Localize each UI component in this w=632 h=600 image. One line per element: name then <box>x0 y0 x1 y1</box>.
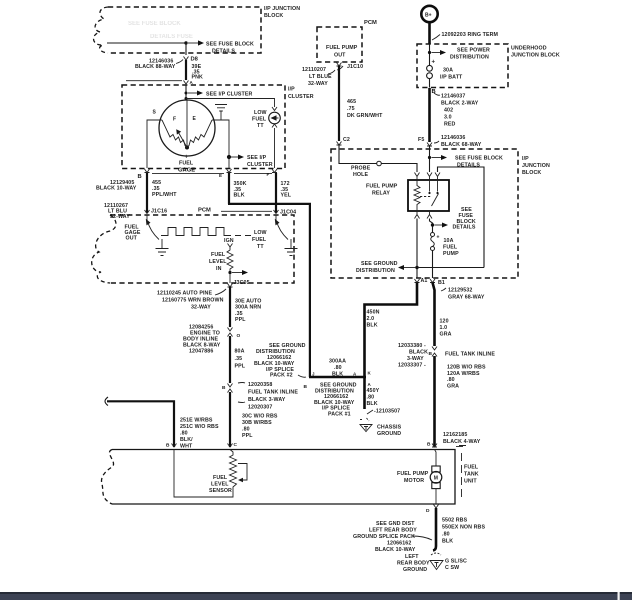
svg-text:FUEL PUMP: FUEL PUMP <box>397 471 429 477</box>
svg-text:PPL/WHT: PPL/WHT <box>152 192 177 198</box>
wire to low fuel telltale <box>186 99 275 108</box>
svg-text:FUEL PUMP: FUEL PUMP <box>326 45 358 51</box>
gauge pivot <box>185 146 189 150</box>
svg-text:LOW: LOW <box>254 230 267 236</box>
svg-text:BLACK 10-WAY: BLACK 10-WAY <box>96 186 137 192</box>
pin A into cluster <box>126 80 194 85</box>
svg-text:GRAY 68-WAY: GRAY 68-WAY <box>448 295 485 301</box>
svg-text:300AA: 300AA <box>329 359 346 365</box>
label I/P CLUSTER <box>288 87 314 101</box>
svg-text:12033307 -: 12033307 - <box>398 363 426 369</box>
cluster connector face lines <box>152 173 272 175</box>
fuel tank unit box <box>101 446 466 505</box>
arrow SEE FUSE BLOCK DETAILS <box>188 40 254 54</box>
svg-text:C: C <box>234 442 238 448</box>
battery B+ ring terminal <box>421 6 437 22</box>
svg-text:FUEL TANK INLINE: FUEL TANK INLINE <box>248 390 298 396</box>
svg-text:FUEL PUMP: FUEL PUMP <box>366 184 398 190</box>
wire 80A .35 PPL <box>230 336 246 383</box>
wire 120B W/O RBS 120A W/RBS .80 GRA <box>435 356 486 447</box>
PCM connector face line <box>221 210 272 212</box>
svg-text:SEE FUSE BLOCK: SEE FUSE BLOCK <box>455 156 503 162</box>
fuel pump relay box <box>408 180 449 211</box>
svg-text:UNDERHOOD: UNDERHOOD <box>511 46 547 52</box>
svg-text:DETAILS FUSE: DETAILS FUSE <box>150 34 193 40</box>
svg-text:OUT: OUT <box>126 236 138 242</box>
svg-text:402: 402 <box>444 108 453 114</box>
IGN feed connector mark <box>228 244 233 248</box>
svg-text:BLOCK: BLOCK <box>264 13 283 19</box>
pin B (fuel tank unit) <box>427 442 437 448</box>
svg-text:FUEL: FUEL <box>213 475 228 481</box>
label FUEL LEVEL SENSOR <box>209 475 232 494</box>
svg-text:SEE FUSE BLOCK: SEE FUSE BLOCK <box>206 42 254 48</box>
svg-text:PPL: PPL <box>242 433 253 439</box>
connector 12146037 BLACK 2-WAY <box>434 93 479 107</box>
svg-text:DETAILS: DETAILS <box>212 49 235 55</box>
svg-text:FUEL: FUEL <box>464 465 479 471</box>
connector 12110245 AUTO TRNS 12160775 WRN BROWN 32-WAY <box>157 289 226 311</box>
svg-text:B: B <box>304 384 308 390</box>
fuel level sensor resistor <box>230 450 237 492</box>
svg-text:DETAILS: DETAILS <box>453 225 476 231</box>
connector 12020358 FUEL TANK INLINE BLACK 3-WAY 12020307 <box>222 382 298 411</box>
wire 120 1.0 GRA (fuel pump feed) <box>433 283 452 347</box>
svg-text:DISTRIBUTION: DISTRIBUTION <box>450 55 489 61</box>
I/P cluster dashed box <box>122 85 285 169</box>
svg-text:PCM: PCM <box>198 208 211 214</box>
splice pack #2 label (SEE GROUND DISTRIBUTION 12066162 BLACK 10-WAY I/P SPLICE PACK #2) <box>254 343 306 379</box>
connector 12162185 BLACK 4-WAY <box>443 432 481 447</box>
svg-text:SEE I/P CLUSTER: SEE I/P CLUSTER <box>206 92 253 98</box>
node power distribution junction <box>428 48 490 61</box>
svg-text:I/P JUNCTION: I/P JUNCTION <box>264 6 300 12</box>
svg-text:300A NRN: 300A NRN <box>235 305 261 311</box>
svg-text:M: M <box>434 476 438 482</box>
svg-text:BLK: BLK <box>234 193 245 199</box>
svg-text:E: E <box>219 173 222 178</box>
svg-text:LEVEL: LEVEL <box>209 259 227 265</box>
node to low fuel lamp <box>185 97 188 100</box>
svg-text:PPL: PPL <box>235 364 246 370</box>
svg-text:RED: RED <box>444 122 456 128</box>
connector 12129532 GRAY 68-WAY <box>441 288 485 301</box>
connector 12110207 LT BLUE 32-WAY <box>302 67 335 87</box>
connector 12146036 BLACK 68-WAY (F5) <box>434 135 482 148</box>
pin D <box>426 505 439 515</box>
svg-text:BLACK: BLACK <box>409 350 428 356</box>
wire 172 .35 YEL <box>276 173 292 213</box>
svg-text:120B W/O RBS: 120B W/O RBS <box>447 365 486 371</box>
gauge left winding <box>162 120 187 148</box>
fuse 30A I/P BATT <box>427 65 463 80</box>
svg-text:12066162: 12066162 <box>387 541 411 547</box>
svg-text:B+: B+ <box>425 13 432 19</box>
label FUEL GAGE OUT <box>125 225 141 242</box>
svg-text:30C W/O RBS: 30C W/O RBS <box>242 414 278 420</box>
label UNDERHOOD JUNCTION BLOCK <box>511 46 560 59</box>
node arrow SEE I/P CLUSTER (lower) <box>227 155 272 169</box>
svg-text:FUEL: FUEL <box>179 161 194 167</box>
svg-text:251C W/O RBS: 251C W/O RBS <box>180 424 219 430</box>
svg-text:D8: D8 <box>191 57 199 63</box>
svg-text:32-WAY: 32-WAY <box>308 81 328 87</box>
pin B1 <box>430 279 445 286</box>
relay coil-contact dashed link <box>420 196 431 198</box>
relay contact stubs <box>430 180 438 192</box>
svg-text:LEFT: LEFT <box>405 554 419 560</box>
wire relay pin 87a loop <box>438 167 485 268</box>
connector 12033380 BLACK 3-WAY 12033307 fuel tank inline <box>398 343 495 369</box>
svg-text:GRA: GRA <box>447 383 459 389</box>
relay coil <box>414 180 420 211</box>
svg-text:3-WAY: 3-WAY <box>407 356 424 362</box>
svg-text:BLACK 3-WAY: BLACK 3-WAY <box>248 397 286 403</box>
svg-text:BLK: BLK <box>367 401 378 407</box>
fuel pump motor <box>430 450 442 505</box>
pin C2 <box>337 137 350 145</box>
connector 12084256 ENGINE TO BODY INLINE BLACK 8-WAY 12047886 <box>183 325 241 355</box>
cluster pin B <box>138 169 150 180</box>
svg-text:.80: .80 <box>442 532 450 538</box>
svg-text:12020358: 12020358 <box>248 382 272 388</box>
svg-text:BLK: BLK <box>332 372 343 378</box>
svg-text:IGN: IGN <box>224 238 234 244</box>
svg-text:F: F <box>173 117 176 123</box>
svg-text:+: + <box>437 235 440 241</box>
svg-text:TT: TT <box>257 244 264 250</box>
wire F5 down to relay <box>429 146 431 172</box>
svg-text:.80: .80 <box>367 395 375 401</box>
svg-text:.35: .35 <box>235 356 243 362</box>
svg-text:MOTOR: MOTOR <box>404 478 424 484</box>
svg-text:TANK: TANK <box>464 472 479 478</box>
gauge internal vertical wire <box>186 100 188 147</box>
svg-text:I/P BATT: I/P BATT <box>440 75 463 81</box>
ground symbol (fuel gage out) <box>156 239 169 256</box>
svg-text:G SL/SC: G SL/SC <box>445 559 467 565</box>
wire to fuse block (horizontal) <box>107 42 186 44</box>
wire gauge S terminal to left <box>147 120 162 168</box>
svg-text:12146036: 12146036 <box>441 135 465 141</box>
svg-text:12160775 WRN BROWN: 12160775 WRN BROWN <box>162 298 224 304</box>
svg-text:FUEL: FUEL <box>211 252 226 258</box>
J1C04 internal switch LOW FUEL TT driver <box>275 215 288 240</box>
svg-text:BLOCK: BLOCK <box>522 170 541 176</box>
connector 12092203 RING TERM <box>432 32 499 40</box>
svg-text:.80: .80 <box>447 377 455 383</box>
left rear body ground symbol <box>430 553 443 570</box>
bottom window bar <box>0 592 632 600</box>
chassis ground symbol <box>360 418 372 432</box>
connector 12110267 LT BLU 32-WAY <box>104 203 130 220</box>
svg-text:-12103507: -12103507 <box>374 409 400 415</box>
node ground distribution junction <box>356 261 484 274</box>
probe hole circle <box>351 161 381 178</box>
svg-text:DK GRN/WHT: DK GRN/WHT <box>347 113 383 119</box>
wire 30C W/O RBS 30B W/RBS .80 PPL <box>230 392 278 447</box>
svg-text:PCM: PCM <box>364 20 377 26</box>
svg-text:450N: 450N <box>367 310 380 316</box>
svg-text:LOW: LOW <box>254 110 267 116</box>
svg-text:UNIT: UNIT <box>464 479 477 485</box>
svg-text:LEVEL: LEVEL <box>211 482 229 488</box>
wire fuse to B1 <box>432 251 434 279</box>
wire fuse to pin B <box>429 79 431 88</box>
svg-text:12092203 RING TERM: 12092203 RING TERM <box>442 32 499 38</box>
svg-text:.75: .75 <box>347 106 355 112</box>
svg-text:PUMP: PUMP <box>443 251 459 257</box>
pin C (sensor signal) <box>228 442 238 448</box>
wire gauge E terminal to right <box>212 120 229 168</box>
svg-text:WHT: WHT <box>180 444 193 450</box>
svg-text:PACK #2: PACK #2 <box>270 373 293 379</box>
svg-text:B: B <box>429 351 433 357</box>
wire relay 85 to ground run <box>416 219 418 279</box>
wire 450Y .80 BLK to chassis ground <box>365 377 380 409</box>
svg-text:J3C05: J3C05 <box>234 280 250 286</box>
fuel level sensor wiper <box>238 464 247 483</box>
wire 251E hook (left rear body ground feed) <box>105 397 219 450</box>
ground symbol (low fuel driver) <box>285 239 298 256</box>
I/P junction block (top left) dashed box <box>94 7 261 53</box>
svg-text:RELAY: RELAY <box>372 191 390 197</box>
svg-text:O: O <box>237 333 241 339</box>
svg-text:I/P: I/P <box>522 156 529 162</box>
svg-text:FUEL: FUEL <box>252 117 267 123</box>
svg-text:80A: 80A <box>235 349 245 355</box>
svg-text:D: D <box>426 508 430 514</box>
svg-text:12146037: 12146037 <box>441 94 465 100</box>
svg-text:FUEL TANK INLINE: FUEL TANK INLINE <box>445 352 495 358</box>
node J splice junction <box>304 372 358 391</box>
pin F5 <box>418 137 432 146</box>
svg-text:SEE GROUND: SEE GROUND <box>361 261 398 267</box>
svg-text:C SW: C SW <box>445 565 459 571</box>
wire lamp to cluster pin F <box>274 130 276 168</box>
square wave trailing dashes <box>235 235 251 237</box>
svg-text:TT: TT <box>257 123 264 129</box>
pin B (sensor ground) <box>166 443 177 449</box>
svg-text:550EX NON RBS: 550EX NON RBS <box>442 525 485 531</box>
svg-text:.80: .80 <box>180 431 188 437</box>
pin J1C16 <box>145 209 168 215</box>
svg-text:JUNCTION BLOCK: JUNCTION BLOCK <box>511 53 560 59</box>
label FUEL PUMP RELAY <box>366 184 398 197</box>
wire 300AA .80 BLK (splice link) <box>309 359 366 378</box>
svg-text:SEE POWER: SEE POWER <box>457 48 490 54</box>
svg-text:30A: 30A <box>443 68 453 74</box>
svg-text:5502 RBS: 5502 RBS <box>442 518 468 524</box>
pin J1C10 <box>337 63 364 71</box>
svg-text:12129532: 12129532 <box>448 288 472 294</box>
svg-text:450Y: 450Y <box>367 388 380 394</box>
relay top pins <box>415 173 441 181</box>
svg-text:PROBE: PROBE <box>351 166 371 172</box>
svg-text:GAGE: GAGE <box>178 168 195 174</box>
svg-text:2.0: 2.0 <box>367 316 375 322</box>
svg-text:251E W/RBS: 251E W/RBS <box>180 418 213 424</box>
svg-text:FUEL: FUEL <box>443 245 458 251</box>
svg-text:BLACK 4-WAY: BLACK 4-WAY <box>443 439 481 445</box>
svg-text:C2: C2 <box>343 137 350 143</box>
gauge ground symbol (inside cluster) <box>215 105 227 121</box>
node fuel level sense with arrow <box>228 270 248 275</box>
svg-text:SEE FUSE BLOCK: SEE FUSE BLOCK <box>128 21 181 27</box>
svg-text:+: + <box>432 60 436 66</box>
pin J1C04 <box>274 210 297 216</box>
node fuse block feed junction <box>428 155 503 169</box>
pin J3C05 <box>228 280 250 287</box>
svg-text:LEFT REAR BODY: LEFT REAR BODY <box>369 528 417 534</box>
svg-text:HOLE: HOLE <box>353 172 368 178</box>
svg-text:IN: IN <box>216 266 222 272</box>
label I/P JUNCTION BLOCK (top left) <box>264 6 300 19</box>
PCM upper dashed box <box>317 27 362 62</box>
connector 12146036 BLACK 88-WAY <box>135 59 183 70</box>
svg-text:12047886: 12047886 <box>189 349 213 355</box>
svg-text:12110207: 12110207 <box>302 67 326 73</box>
pin D8 <box>184 57 199 63</box>
svg-text:F: F <box>267 172 270 177</box>
svg-text:12020307: 12020307 <box>248 405 272 411</box>
svg-text:32-WAY: 32-WAY <box>191 305 211 311</box>
svg-text:GROUND: GROUND <box>403 567 427 573</box>
connector 12129405 BLACK 10-WAY <box>96 180 137 192</box>
svg-text:CLUSTER: CLUSTER <box>247 162 273 168</box>
svg-text:DISTRIBUTION: DISTRIBUTION <box>356 268 395 274</box>
svg-text:F5: F5 <box>418 137 424 143</box>
wire stub down from junction <box>185 43 187 55</box>
svg-text:BLACK 68-WAY: BLACK 68-WAY <box>441 142 482 148</box>
svg-text:DETAILS: DETAILS <box>457 163 480 169</box>
svg-text:SENSOR: SENSOR <box>209 488 232 494</box>
svg-text:10A: 10A <box>444 238 454 244</box>
cluster pin F <box>267 169 278 177</box>
label FUEL GAGE <box>178 161 195 174</box>
svg-text:OUT: OUT <box>334 53 346 59</box>
node with arrow SEE I/P CLUSTER <box>185 91 253 98</box>
svg-text:A1: A1 <box>421 278 428 284</box>
multiplex square wave signal <box>161 228 231 236</box>
svg-text:B: B <box>222 385 226 391</box>
svg-text:CLUSTER: CLUSTER <box>288 94 314 100</box>
svg-text:PNK: PNK <box>192 75 204 81</box>
svg-text:.80: .80 <box>334 365 342 371</box>
label FUEL TANK UNIT <box>464 465 479 485</box>
PCM lower dashed box <box>92 215 294 283</box>
svg-text:12033380 -: 12033380 - <box>398 343 426 349</box>
underhood junction block dashed box <box>417 44 508 88</box>
svg-text:B1: B1 <box>438 280 445 286</box>
label FUEL LEVEL IN <box>209 252 227 272</box>
label I/P JUNCTION BLOCK (right) <box>522 156 550 176</box>
svg-text:I/P: I/P <box>288 87 295 93</box>
connector left rear body ground splice pack <box>353 521 432 553</box>
svg-text:SEE GND DIST: SEE GND DIST <box>376 521 415 527</box>
node fuse block details junction (lower) <box>431 207 476 231</box>
svg-text:BLK: BLK <box>442 539 453 545</box>
wire 30E AUTO 300A NRN .35 PPL <box>230 287 261 327</box>
svg-text:YEL: YEL <box>281 193 292 199</box>
wire 465 .75 DK GRN/WHT <box>339 66 383 141</box>
fuel level sensor loop wiring <box>174 450 233 498</box>
svg-text:12162185: 12162185 <box>443 432 467 438</box>
svg-text:BLK/: BLK/ <box>180 437 193 443</box>
svg-text:120: 120 <box>440 319 449 325</box>
label CHASSIS GROUND <box>377 425 402 438</box>
svg-text:JUNCTION: JUNCTION <box>522 163 550 169</box>
svg-text:BLACK 88-WAY: BLACK 88-WAY <box>135 64 176 70</box>
wire C2 into relay coil <box>339 145 417 172</box>
I/P junction block (right, large) dashed box <box>331 149 518 278</box>
svg-text:PACK #1: PACK #1 <box>328 411 351 417</box>
svg-text:J1C10: J1C10 <box>347 64 363 70</box>
svg-text:465: 465 <box>347 99 356 105</box>
low fuel telltale lamp <box>269 107 281 130</box>
svg-text:120A W/RBS: 120A W/RBS <box>447 371 480 377</box>
relay switch blade <box>432 194 439 207</box>
pin A1 <box>415 278 428 284</box>
fuse 10A FUEL PUMP <box>431 233 460 257</box>
svg-text:FUEL: FUEL <box>252 237 267 243</box>
svg-text:3.0: 3.0 <box>444 115 452 121</box>
J1C16 internal switch to ground <box>146 215 159 240</box>
wire 350K ground run to splice (down the middle) <box>228 204 310 377</box>
svg-text:BLACK 2-WAY: BLACK 2-WAY <box>441 101 479 107</box>
label FUEL PUMP MOTOR <box>397 471 429 484</box>
svg-text:LT BLUE: LT BLUE <box>309 74 332 80</box>
wire 402 3.0 RED <box>430 88 456 142</box>
wire from pin A down <box>185 85 187 100</box>
connector 12103507 <box>367 409 400 415</box>
relay bottom pins <box>415 211 433 219</box>
wire relay 30 to fuse <box>430 219 433 233</box>
node junction dot <box>184 41 187 44</box>
svg-text:GROUND: GROUND <box>377 431 401 437</box>
svg-text:CHASSIS: CHASSIS <box>377 425 402 431</box>
svg-text:BLK: BLK <box>367 323 378 329</box>
wire B+ to underhood block <box>428 23 431 45</box>
svg-text:1.0: 1.0 <box>440 325 448 331</box>
node K/A on relay ground wire <box>368 371 372 388</box>
label FUEL PUMP OUT <box>326 45 358 59</box>
svg-text:30B W/RBS: 30B W/RBS <box>242 420 272 426</box>
svg-text:SEE I/P: SEE I/P <box>247 155 267 161</box>
fuel level pull-up resistor <box>227 247 233 283</box>
svg-text:REAR BODY: REAR BODY <box>397 561 430 567</box>
label LEFT REAR BODY GROUND <box>397 554 430 573</box>
fuel gauge circle <box>159 100 215 156</box>
svg-text:GRA: GRA <box>440 332 452 338</box>
svg-text:B: B <box>427 442 431 448</box>
svg-text:PPL: PPL <box>235 317 246 323</box>
wire 350K .35 BLK <box>229 173 247 204</box>
svg-text:12110245 AUTO PINE: 12110245 AUTO PINE <box>157 291 212 297</box>
svg-text:B: B <box>138 174 142 180</box>
label LOW FUEL TT (PCM) <box>252 230 267 250</box>
splice pack #1 label (SEE GROUND DISTRIBUTION 12066162 BLACK 10-WAY I/P SPLICE PACK #1) <box>314 383 357 418</box>
svg-text:J1C16: J1C16 <box>151 209 167 215</box>
gauge needle <box>176 129 187 147</box>
svg-text:B: B <box>166 443 170 449</box>
wire 455 .35 PPL/WHT <box>147 173 177 213</box>
wire 5502 RBS 550EX NON RBS .80 BLK <box>433 508 485 551</box>
gauge right winding <box>187 120 212 148</box>
wire 450N 2.0 BLK (relay ground to splice) <box>365 283 418 379</box>
cluster pin E <box>219 169 232 178</box>
wire 39E .35 PNK <box>186 60 203 81</box>
